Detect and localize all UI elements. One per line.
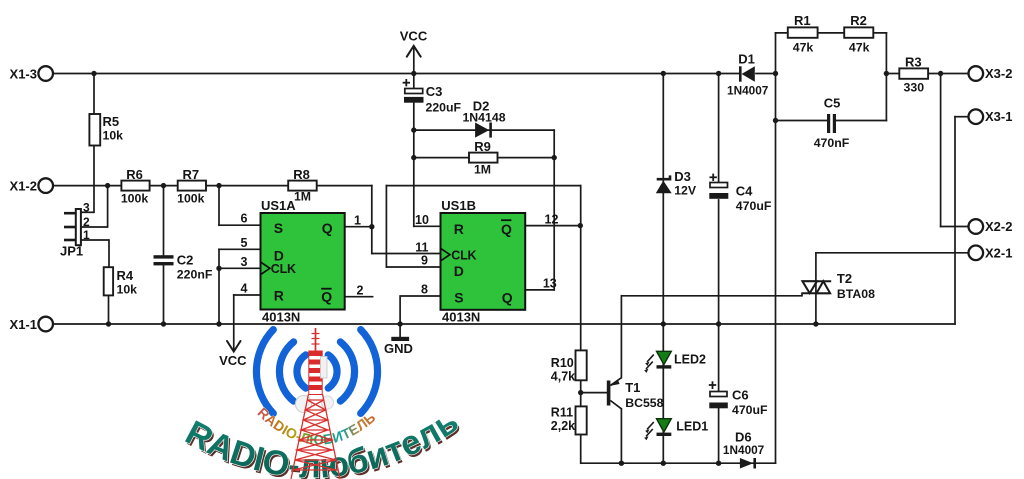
svg-text:10: 10 bbox=[415, 213, 429, 227]
svg-text:X1-2: X1-2 bbox=[10, 179, 37, 194]
svg-text:4013N: 4013N bbox=[262, 310, 300, 325]
svg-text:R3: R3 bbox=[905, 54, 922, 69]
svg-text:100k: 100k bbox=[177, 191, 205, 205]
svg-text:12V: 12V bbox=[674, 184, 697, 198]
svg-text:BC558: BC558 bbox=[625, 396, 663, 410]
svg-text:D: D bbox=[274, 247, 284, 263]
svg-text:D1: D1 bbox=[738, 52, 755, 67]
svg-text:1N4007: 1N4007 bbox=[723, 443, 765, 457]
svg-text:R8: R8 bbox=[293, 167, 310, 182]
svg-text:3: 3 bbox=[83, 201, 90, 215]
svg-text:6: 6 bbox=[241, 212, 248, 226]
svg-text:2: 2 bbox=[83, 215, 90, 229]
svg-text:12: 12 bbox=[545, 212, 559, 226]
svg-text:1: 1 bbox=[354, 213, 361, 227]
svg-text:11: 11 bbox=[415, 240, 428, 254]
svg-text:US1B: US1B bbox=[441, 198, 476, 213]
svg-text:1M: 1M bbox=[294, 190, 311, 204]
svg-text:S: S bbox=[454, 289, 463, 305]
svg-text:47k: 47k bbox=[849, 41, 870, 55]
svg-text:100k: 100k bbox=[121, 191, 149, 205]
svg-text:X1-3: X1-3 bbox=[10, 67, 37, 82]
svg-text:1M: 1M bbox=[474, 163, 491, 177]
svg-text:GND: GND bbox=[384, 341, 413, 356]
svg-text:X2-1: X2-1 bbox=[985, 245, 1012, 260]
svg-text:5: 5 bbox=[241, 236, 248, 250]
svg-text:1: 1 bbox=[83, 228, 90, 242]
svg-text:220nF: 220nF bbox=[177, 268, 213, 282]
svg-text:R4: R4 bbox=[117, 268, 134, 283]
svg-text:C3: C3 bbox=[426, 84, 443, 99]
svg-text:R: R bbox=[454, 221, 464, 237]
svg-text:CLK: CLK bbox=[451, 249, 476, 263]
svg-text:470uF: 470uF bbox=[732, 403, 768, 417]
svg-text:R5: R5 bbox=[103, 114, 120, 129]
svg-text:C6: C6 bbox=[732, 387, 749, 402]
svg-text:LED2: LED2 bbox=[674, 352, 706, 366]
svg-text:T2: T2 bbox=[837, 271, 852, 286]
svg-text:X2-2: X2-2 bbox=[985, 219, 1012, 234]
svg-text:VCC: VCC bbox=[400, 29, 428, 44]
svg-text:R10: R10 bbox=[551, 356, 574, 370]
svg-text:VCC: VCC bbox=[219, 353, 247, 368]
svg-text:X1-1: X1-1 bbox=[10, 317, 37, 332]
svg-text:CLK: CLK bbox=[271, 262, 296, 276]
svg-text:3: 3 bbox=[241, 255, 248, 269]
svg-text:R9: R9 bbox=[474, 139, 491, 154]
svg-text:2: 2 bbox=[357, 283, 364, 297]
svg-text:S: S bbox=[274, 220, 283, 236]
svg-text:X3-1: X3-1 bbox=[985, 109, 1012, 124]
svg-text:4013N: 4013N bbox=[442, 310, 480, 325]
svg-text:Q: Q bbox=[322, 220, 333, 236]
svg-text:10k: 10k bbox=[117, 283, 138, 297]
svg-text:Q: Q bbox=[501, 221, 512, 237]
svg-text:10k: 10k bbox=[103, 129, 124, 143]
svg-text:US1A: US1A bbox=[261, 198, 296, 213]
svg-text:1N4007: 1N4007 bbox=[727, 83, 769, 97]
svg-text:JP1: JP1 bbox=[60, 244, 83, 259]
svg-text:BTA08: BTA08 bbox=[837, 287, 875, 301]
svg-text:R7: R7 bbox=[182, 167, 199, 182]
svg-text:2,2k: 2,2k bbox=[551, 419, 575, 433]
svg-text:4,7k: 4,7k bbox=[551, 370, 575, 384]
svg-text:Q: Q bbox=[502, 289, 513, 305]
svg-text:R1: R1 bbox=[794, 13, 811, 28]
svg-text:1N4148: 1N4148 bbox=[462, 111, 505, 125]
svg-text:X3-2: X3-2 bbox=[985, 66, 1012, 81]
svg-text:D3: D3 bbox=[674, 169, 691, 184]
svg-text:C4: C4 bbox=[736, 183, 753, 198]
svg-text:13: 13 bbox=[543, 277, 557, 291]
svg-text:47k: 47k bbox=[793, 41, 814, 55]
svg-text:C2: C2 bbox=[177, 253, 194, 268]
svg-text:R2: R2 bbox=[850, 13, 867, 28]
svg-text:470uF: 470uF bbox=[736, 199, 772, 213]
svg-text:470nF: 470nF bbox=[814, 136, 850, 150]
svg-text:220uF: 220uF bbox=[426, 101, 462, 115]
svg-text:T1: T1 bbox=[625, 380, 640, 395]
svg-text:R6: R6 bbox=[126, 167, 143, 182]
svg-text:R11: R11 bbox=[551, 406, 573, 420]
svg-text:8: 8 bbox=[421, 283, 428, 297]
svg-text:R: R bbox=[274, 288, 284, 304]
svg-text:330: 330 bbox=[904, 80, 925, 94]
svg-text:Q: Q bbox=[321, 289, 332, 305]
svg-text:4: 4 bbox=[241, 282, 248, 296]
svg-text:D: D bbox=[454, 263, 464, 279]
svg-text:LED1: LED1 bbox=[676, 420, 708, 434]
svg-text:C5: C5 bbox=[824, 96, 841, 111]
svg-text:9: 9 bbox=[421, 254, 428, 268]
